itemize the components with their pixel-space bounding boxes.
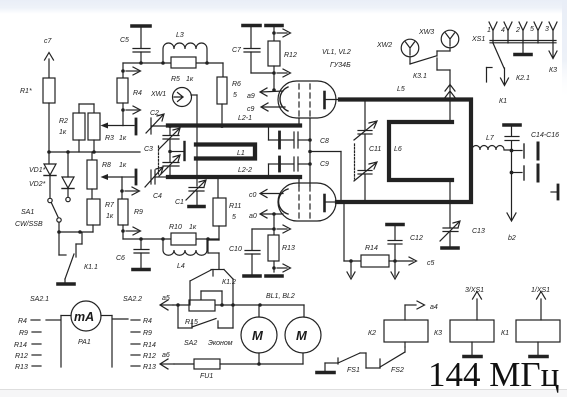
- ground: [58, 282, 74, 286]
- node a5: [160, 300, 173, 310]
- svg-text:SA2.1: SA2.1: [30, 296, 49, 303]
- svg-text:144 МГц: 144 МГц: [428, 355, 559, 394]
- svg-text:К3: К3: [549, 67, 557, 74]
- capacitor C6: [134, 239, 149, 268]
- svg-text:К1.1: К1.1: [84, 264, 98, 271]
- resistor R3: [88, 113, 123, 152]
- svg-text:C4: C4: [153, 193, 162, 200]
- svg-text:M: M: [296, 328, 308, 343]
- wire grid2: [298, 177, 300, 186]
- svg-text:5: 5: [233, 92, 237, 99]
- svg-text:R5: R5: [171, 76, 180, 83]
- svg-text:C12: C12: [410, 235, 423, 242]
- inductor L2-1: [168, 124, 300, 128]
- svg-text:ГУ34Б: ГУ34Б: [330, 62, 351, 69]
- svg-text:L2-1: L2-1: [238, 115, 252, 122]
- svg-text:Эконом: Эконом: [208, 340, 233, 347]
- capacitor C2: [123, 114, 168, 134]
- wire screen column: [308, 118, 312, 186]
- svg-text:L6: L6: [394, 146, 402, 153]
- wire: [123, 61, 223, 65]
- svg-text:R12: R12: [143, 353, 156, 360]
- svg-text:XW3: XW3: [418, 29, 434, 36]
- node probe plate: [170, 142, 185, 160]
- svg-text:VL1, VL2: VL1, VL2: [322, 49, 351, 56]
- svg-text:c7: c7: [44, 38, 53, 45]
- svg-text:R9: R9: [143, 330, 152, 337]
- capacitor C12: [387, 225, 403, 262]
- node b2: [507, 174, 516, 221]
- switch FS1: [317, 353, 380, 373]
- svg-text:c9: c9: [247, 106, 255, 113]
- svg-text:C8: C8: [320, 138, 329, 145]
- switch K2.1: [487, 43, 509, 86]
- connector X1: [551, 185, 558, 199]
- svg-text:R10: R10: [169, 224, 182, 231]
- svg-text:1: 1: [487, 27, 491, 34]
- capacitor C7: [243, 26, 274, 74]
- resistor R10: [171, 233, 196, 245]
- node K3 pin arrow: [549, 51, 557, 59]
- wire: [173, 303, 304, 307]
- inductor L5 / anode loop: [337, 98, 471, 204]
- svg-text:C2: C2: [150, 110, 159, 117]
- tube VL2: [278, 183, 339, 221]
- svg-text:XS1: XS1: [471, 36, 485, 43]
- wire: [48, 103, 50, 152]
- svg-text:1к: 1к: [186, 76, 194, 83]
- svg-text:L3: L3: [176, 32, 184, 39]
- svg-text:VD2*: VD2*: [29, 181, 46, 188]
- wire row stubs right: [131, 320, 140, 366]
- resistor R15: [189, 300, 215, 311]
- svg-text:R11: R11: [229, 203, 241, 210]
- svg-text:R4: R4: [143, 318, 152, 325]
- resistor R8: [87, 152, 122, 189]
- resistor R14: [344, 204, 417, 279]
- wire: [310, 152, 341, 202]
- svg-text:R9: R9: [19, 330, 28, 337]
- svg-text:R13: R13: [282, 245, 295, 252]
- svg-text:1к: 1к: [189, 224, 197, 231]
- ground: [189, 205, 204, 209]
- resistor R6: [217, 63, 227, 126]
- connector XS1: [489, 22, 557, 58]
- node a9: [260, 88, 283, 96]
- resistor R1: [43, 78, 55, 103]
- svg-text:C5: C5: [120, 37, 129, 44]
- svg-text:VD1*: VD1*: [29, 167, 46, 174]
- svg-text:3/XS1: 3/XS1: [465, 287, 484, 294]
- capacitor C5: [132, 26, 150, 63]
- svg-text:R13: R13: [15, 364, 28, 371]
- svg-text:SA2.2: SA2.2: [123, 296, 142, 303]
- ground: [266, 274, 282, 278]
- node a0 junction: [272, 225, 290, 233]
- svg-text:C1: C1: [175, 199, 184, 206]
- inductor L6: [389, 122, 452, 180]
- relay K1: [516, 292, 560, 356]
- svg-text:R13: R13: [143, 364, 156, 371]
- switch SA1: [52, 203, 62, 232]
- ground: [530, 355, 547, 359]
- svg-text:К2.1: К2.1: [516, 75, 530, 82]
- connector XW3: [437, 30, 459, 56]
- svg-text:C7: C7: [232, 47, 242, 54]
- svg-text:R2: R2: [59, 118, 68, 125]
- svg-text:2: 2: [515, 27, 520, 34]
- switch SA2: [178, 305, 233, 328]
- wire antenna tap: [449, 102, 451, 201]
- svg-text:mA: mA: [74, 310, 94, 324]
- svg-text:R4: R4: [133, 90, 142, 97]
- svg-text:SA1: SA1: [21, 209, 34, 216]
- node a6: [160, 359, 174, 369]
- svg-text:К3.1: К3.1: [413, 73, 427, 80]
- node c9: [261, 103, 285, 111]
- svg-text:C14-C16: C14-C16: [531, 132, 559, 139]
- svg-text:a4: a4: [430, 304, 438, 311]
- svg-text:1к: 1к: [106, 213, 114, 220]
- node c0: [260, 190, 283, 198]
- relay K3: [450, 292, 494, 356]
- svg-text:L2-2: L2-2: [238, 167, 252, 174]
- svg-text:FS2: FS2: [391, 367, 404, 374]
- svg-text:5: 5: [530, 26, 534, 33]
- switch FS2: [380, 347, 405, 368]
- resistor R5: [171, 57, 196, 68]
- svg-text:К1.2: К1.2: [222, 279, 236, 286]
- svg-text:C9: C9: [320, 161, 329, 168]
- tube VL1: [278, 81, 341, 118]
- inductor L4: [163, 239, 207, 255]
- svg-text:a5: a5: [162, 295, 170, 302]
- capacitor C9: [269, 157, 312, 175]
- ground: [515, 53, 531, 57]
- svg-text:R14: R14: [143, 342, 156, 349]
- svg-text:1/XS1: 1/XS1: [531, 287, 550, 294]
- connector XW1: [173, 88, 198, 187]
- svg-text:CW/SSB: CW/SSB: [15, 221, 43, 228]
- inductor L3: [163, 43, 207, 63]
- connector XW2: [401, 39, 419, 64]
- svg-text:c0: c0: [249, 192, 257, 199]
- svg-text:R7: R7: [105, 202, 115, 209]
- svg-text:b2: b2: [508, 235, 516, 242]
- svg-text:L4: L4: [177, 263, 185, 270]
- svg-text:C3: C3: [144, 146, 153, 153]
- svg-text:R4: R4: [18, 318, 27, 325]
- fuse FU1: [174, 359, 303, 369]
- capacitor C3: [159, 127, 181, 177]
- wire: [57, 230, 93, 234]
- inductor L2-2: [168, 175, 300, 179]
- svg-text:R9: R9: [134, 209, 143, 216]
- milliammeter PA1: [46, 301, 128, 367]
- capacitor C8: [269, 127, 312, 148]
- svg-text:R12: R12: [15, 353, 28, 360]
- diode VD2: [62, 152, 74, 202]
- resistor R9: [118, 199, 141, 239]
- capacitor C10: [245, 229, 274, 274]
- wire: [208, 240, 219, 269]
- resistor R4: [117, 63, 141, 126]
- svg-text:1к: 1к: [59, 129, 67, 136]
- svg-text:R15: R15: [185, 319, 198, 326]
- motor BL2: [285, 305, 321, 364]
- wire bridge: [201, 291, 222, 305]
- ground: [442, 246, 458, 250]
- svg-text:C10: C10: [229, 246, 242, 253]
- svg-text:XW2: XW2: [376, 42, 392, 49]
- svg-text:К1: К1: [499, 98, 507, 105]
- svg-text:3: 3: [545, 26, 549, 33]
- svg-text:L5: L5: [397, 86, 405, 93]
- resistor R7: [87, 189, 100, 232]
- capacitor C11: [354, 102, 377, 200]
- svg-text:PA1: PA1: [78, 339, 91, 346]
- motor BL1: [241, 305, 277, 364]
- svg-text:SA2: SA2: [184, 340, 197, 347]
- svg-text:R12: R12: [284, 52, 297, 59]
- resistor R2: [73, 104, 94, 152]
- svg-text:c5: c5: [427, 260, 435, 267]
- svg-text:C13: C13: [472, 228, 485, 235]
- resistor R11: [208, 179, 226, 240]
- relay contact K1.2: [190, 270, 233, 306]
- svg-text:a6: a6: [162, 352, 170, 359]
- svg-text:a0: a0: [249, 213, 257, 220]
- svg-text:К3: К3: [434, 330, 442, 337]
- relay K2: [384, 301, 428, 347]
- ground: [133, 268, 149, 272]
- svg-text:R14: R14: [14, 342, 27, 349]
- node antenna arrow: [445, 84, 455, 98]
- svg-text:4: 4: [501, 27, 505, 34]
- wire: [123, 237, 219, 241]
- svg-text:XW1: XW1: [150, 91, 166, 98]
- svg-text:R14: R14: [365, 245, 378, 252]
- svg-text:FS1: FS1: [347, 367, 360, 374]
- node c7: [45, 53, 54, 79]
- ground: [244, 274, 260, 278]
- capacitor C1: [186, 180, 206, 205]
- svg-text:a9: a9: [247, 93, 255, 100]
- svg-text:C11: C11: [369, 146, 381, 153]
- svg-text:1к: 1к: [119, 135, 127, 142]
- capacitor C13: [440, 204, 460, 246]
- ground: [464, 355, 481, 359]
- svg-text:К2: К2: [368, 330, 376, 337]
- capacitor C4: [122, 167, 168, 187]
- resistor R13: [268, 229, 291, 272]
- node a0: [260, 210, 283, 229]
- inductor L1: [196, 145, 255, 159]
- svg-text:R1*: R1*: [20, 88, 32, 95]
- node a: [120, 177, 139, 199]
- diode VD1: [44, 152, 56, 203]
- svg-text:BL1, BL2: BL1, BL2: [266, 293, 295, 300]
- svg-text:R8: R8: [102, 162, 111, 169]
- inductor L7: [472, 146, 510, 151]
- wire row stubs left: [31, 320, 41, 366]
- resistor R12: [266, 26, 291, 91]
- svg-text:К1: К1: [501, 330, 509, 337]
- svg-text:1к: 1к: [119, 162, 127, 169]
- svg-text:R3: R3: [105, 135, 114, 142]
- capacitor C14-C16: [510, 143, 538, 181]
- capacitor bypass: [504, 125, 520, 152]
- svg-text:FU1: FU1: [200, 373, 213, 380]
- switch K3.1: [410, 56, 450, 83]
- wire: [47, 150, 140, 154]
- svg-text:L1: L1: [237, 150, 245, 157]
- svg-text:R6: R6: [232, 81, 241, 88]
- svg-text:5: 5: [232, 214, 236, 221]
- wire grid1: [298, 118, 300, 126]
- svg-text:L7: L7: [486, 135, 495, 142]
- svg-text:M: M: [252, 328, 264, 343]
- relay contact K1.1: [59, 232, 82, 282]
- svg-text:C6: C6: [116, 255, 125, 262]
